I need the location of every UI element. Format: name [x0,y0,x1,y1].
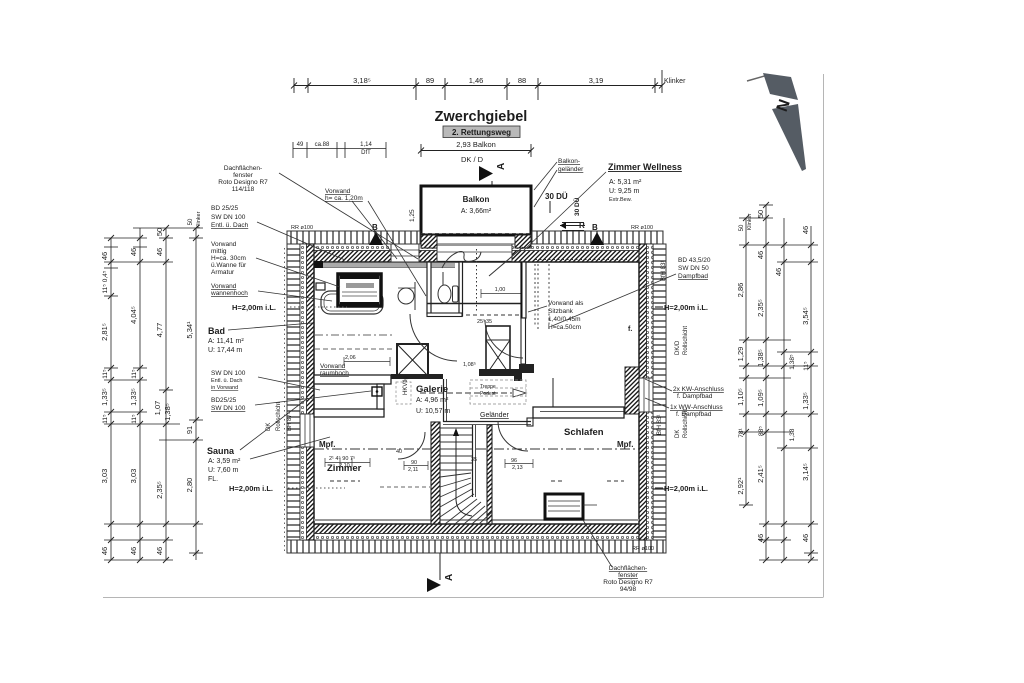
svg-text:U: 17,44 m: U: 17,44 m [208,347,242,354]
svg-text:FL.: FL. [208,476,218,483]
balcony dimension [418,144,534,157]
svg-text:Rollschicht: Rollschicht [683,326,689,355]
svg-text:wannenhoch: wannenhoch [210,290,248,297]
svg-text:BD25/25: BD25/25 [211,397,237,404]
svg-text:46: 46 [129,547,138,555]
washbasin [398,288,414,304]
svg-text:A: A [496,163,507,170]
svg-text:3,54⁵: 3,54⁵ [801,307,810,325]
svg-text:U: 10,57 m: U: 10,57 m [416,408,450,415]
svg-text:Vorwand: Vorwand [211,241,237,248]
bottom roof window label [603,565,653,593]
svg-text:B: B [592,223,598,232]
svg-text:1,29: 1,29 [736,347,745,362]
shower curtain squiggle [442,252,481,269]
stairs [431,422,492,524]
doors (arcs) [410,314,457,361]
walk line with arrow [455,432,457,500]
svg-text:2,80: 2,80 [185,478,194,493]
svg-text:ca.88: ca.88 [315,142,330,148]
svg-text:30 DÜ: 30 DÜ [545,192,568,201]
svg-text:3,19: 3,19 [589,76,604,85]
svg-text:DK / D: DK / D [461,155,484,164]
svg-text:Klinker: Klinker [196,211,202,228]
Bad bottom wall [314,375,391,384]
svg-text:Schlafen: Schlafen [564,427,604,438]
balcony door opening [437,244,512,262]
svg-text:fenster: fenster [233,172,254,179]
svg-text:46: 46 [756,534,765,542]
svg-text:46: 46 [801,534,810,542]
svg-text:BH 87¹: BH 87¹ [287,412,293,431]
svg-text:Roto Designo R7: Roto Designo R7 [603,579,653,586]
svg-text:1,33⁵: 1,33⁵ [129,388,138,406]
svg-text:1,00: 1,00 [495,287,506,293]
wall right of WC [459,262,463,316]
svg-text:Zimmer Wellness: Zimmer Wellness [608,162,682,172]
svg-text:2. Rettungsweg: 2. Rettungsweg [452,128,511,137]
svg-text:2,35⁵: 2,35⁵ [155,481,164,499]
svg-text:3,14⁵: 3,14⁵ [801,463,810,481]
svg-text:fenster: fenster [618,572,639,579]
dotted shower partition [476,249,478,313]
north arrow [747,73,806,171]
svg-text:SW DN 100: SW DN 100 [211,370,246,377]
right annotation texts [670,257,725,418]
svg-text:Mpf.: Mpf. [617,440,633,449]
galerie dash-dot void line with arrow [420,392,512,394]
svg-text:2,11: 2,11 [408,467,418,473]
svg-text:Balkon-: Balkon- [558,158,580,165]
svg-text:11⁵: 11⁵ [102,414,109,424]
svg-text:78¹: 78¹ [738,427,745,437]
svg-text:Mpf.: Mpf. [319,440,335,449]
Treppe dashed podest rect [470,380,526,404]
svg-text:geländer: geländer [558,166,584,173]
svg-text:h= ca. 1,20m: h= ca. 1,20m [325,195,363,202]
svg-text:DfT: DfT [361,150,371,156]
svg-text:Dampfbad: Dampfbad [678,273,708,280]
small valve box on left wall [316,283,325,290]
dim 1,00 inside hall [481,293,523,295]
svg-text:Vorwand: Vorwand [211,283,237,290]
svg-text:RR ø100: RR ø100 [632,546,654,552]
svg-text:50: 50 [739,224,745,231]
sauna stove [372,387,382,396]
klinker course top (two parts, balcony gap) [287,231,666,553]
svg-text:H=2,00m i.L.: H=2,00m i.L. [232,303,276,312]
svg-text:2,81⁵: 2,81⁵ [100,323,109,341]
svg-text:H=ca. 30cm: H=ca. 30cm [211,255,246,262]
svg-text:H=2,00m i.L.: H=2,00m i.L. [664,303,708,312]
tiny dim lines in rooms [325,357,533,470]
leader lines [228,162,676,567]
svg-text:46: 46 [774,268,783,276]
svg-text:f. Dampfbad: f. Dampfbad [677,393,713,400]
svg-text:SW DN 100: SW DN 100 [211,214,246,221]
sitzbank dashed [535,260,630,331]
svg-text:11⁵: 11⁵ [131,369,138,379]
svg-text:2,93 Balkon: 2,93 Balkon [456,140,496,149]
svg-text:U: 9,25 m: U: 9,25 m [609,188,640,195]
svg-text:46: 46 [801,226,810,234]
svg-text:1,38⁵: 1,38⁵ [789,354,796,370]
parapet bars [391,374,443,379]
svg-text:Sitzbank: Sitzbank [548,308,574,315]
svg-text:1,38⁵: 1,38⁵ [756,349,765,367]
ticks rows (horizontal) [104,246,118,248]
svg-text:4,77: 4,77 [155,323,164,338]
connectors/ticks [739,217,773,219]
LEFT DIMENSION CHAINS [104,228,203,560]
svg-text:1x WW-Anschluss: 1x WW-Anschluss [670,404,723,411]
svg-text:Bad: Bad [208,326,225,336]
section marker A top [479,163,507,186]
svg-text:35: 35 [471,457,477,463]
gray front-wall band in Bad [315,263,455,267]
svg-text:2,35⁵: 2,35⁵ [756,299,765,317]
svg-text:Roto Designo R7: Roto Designo R7 [218,179,268,186]
left chain labels (rotated) [100,211,202,555]
balcony side hatched stubs [421,235,437,248]
svg-text:2,41⁵: 2,41⁵ [756,465,765,483]
svg-text:3,03: 3,03 [129,469,138,484]
roof window bottom right [545,494,597,519]
svg-text:RR ø100: RR ø100 [291,225,313,231]
slash ticks left chains [108,225,199,563]
svg-text:50: 50 [756,210,765,218]
svg-text:96: 96 [511,458,517,464]
dashed ceiling lines Bad [315,334,392,336]
svg-text:1,40/0,45m: 1,40/0,45m [548,316,581,323]
svg-text:46: 46 [155,248,164,256]
svg-text:2,86: 2,86 [736,283,745,298]
svg-text:H=2,00m i.L.: H=2,00m i.L. [229,484,273,493]
svg-text:35: 35 [486,319,492,325]
svg-text:1,10⁵: 1,10⁵ [736,388,745,406]
landing lines [427,303,523,305]
svg-text:Klinker: Klinker [747,213,753,230]
svg-text:Dachflächen-: Dachflächen- [224,165,262,172]
svg-text:11⁵: 11⁵ [131,414,138,424]
Vorwand als Sitzbank block [548,300,584,331]
svg-text:1,07: 1,07 [153,401,162,416]
svg-text:46: 46 [100,547,109,555]
right chain labels [736,210,810,542]
svg-text:88⁵: 88⁵ [758,426,765,436]
svg-text:U: 7,60 m: U: 7,60 m [208,467,239,474]
svg-text:1,33⁵: 1,33⁵ [100,388,109,406]
svg-text:2,10: 2,10 [339,463,350,469]
window right wall [639,378,653,412]
svg-text:Entl. ü. Dach: Entl. ü. Dach [211,222,249,229]
svg-text:1,38⁵: 1,38⁵ [163,403,172,421]
svg-text:1,38: 1,38 [789,428,796,441]
inner wall edge [314,262,639,524]
svg-text:3,03: 3,03 [100,469,109,484]
svg-text:f. Dampfbad: f. Dampfbad [676,411,712,418]
shaft 2 with X [486,326,510,375]
svg-text:raumhoch: raumhoch [320,370,349,377]
svg-text:91: 91 [185,426,194,434]
Sauna bottom wall [314,409,384,417]
left annotation texts [210,165,363,412]
dotted line outside left wall [284,248,286,552]
svg-text:4,04⁵: 4,04⁵ [129,306,138,324]
svg-text:2,92¹: 2,92¹ [736,477,745,495]
svg-text:A: 4,96 m²: A: 4,96 m² [416,397,449,404]
svg-text:2,13: 2,13 [512,465,523,471]
svg-text:A: A [444,574,455,581]
svg-text:Geländer: Geländer [480,412,509,419]
svg-text:46: 46 [129,248,138,256]
svg-text:11⁵ 0,4⁵: 11⁵ 0,4⁵ [102,270,109,293]
svg-text:Dachflächen-: Dachflächen- [609,565,647,572]
svg-text:Rollschicht: Rollschicht [276,402,282,431]
gray floor edge bottom [314,519,639,521]
svg-text:DK/D: DK/D [675,340,681,355]
svg-text:5,34¹: 5,34¹ [185,321,194,339]
svg-text:89: 89 [426,76,434,85]
Kamin shaft with X [397,344,428,376]
svg-text:1,46: 1,46 [469,76,484,85]
svg-text:Klinker: Klinker [664,78,686,85]
svg-text:A: 11,41 m²: A: 11,41 m² [208,338,244,345]
gallery void edge left of stairs [443,379,445,422]
svg-text:1,14: 1,14 [360,142,372,148]
svg-text:Extr.Bew.: Extr.Bew. [609,197,632,203]
dashes Schlafen / Zimmer [551,480,563,482]
svg-text:A: 5,31 m²: A: 5,31 m² [609,179,642,186]
svg-text:2x KW-Anschluss: 2x KW-Anschluss [673,386,725,393]
gallery railing [443,421,531,423]
svg-text:in Vorwand: in Vorwand [211,385,238,391]
svg-text:1,09⁵: 1,09⁵ [756,389,765,407]
svg-text:H=2,00m i.L.: H=2,00m i.L. [664,484,708,493]
structural walls hatched with insulation dot band [300,244,653,540]
svg-text:1,33⁵: 1,33⁵ [801,392,810,410]
svg-text:46: 46 [756,251,765,259]
svg-text:Treppe: Treppe [480,384,496,390]
svg-text:Balkon: Balkon [463,195,490,204]
svg-text:A: 3,66m²: A: 3,66m² [461,208,492,215]
Schlafen top wall with jog [533,407,624,418]
svg-text:A: 3,59 m²: A: 3,59 m² [208,458,241,465]
wall left of WC [427,262,431,314]
top connector [133,227,203,229]
svg-text:BD 25/25: BD 25/25 [211,205,238,212]
svg-text:Zwerchgiebel: Zwerchgiebel [435,109,528,125]
svg-text:40: 40 [396,449,402,455]
svg-text:11⁵: 11⁵ [803,361,810,371]
svg-text:DK: DK [675,430,681,438]
balcony door swing diagonal [489,247,523,276]
svg-text:Entl. ü. Dach: Entl. ü. Dach [211,378,243,384]
svg-text:49: 49 [297,142,304,148]
svg-text:Podest: Podest [480,391,496,397]
svg-text:3,18⁵: 3,18⁵ [353,76,371,85]
svg-text:f.: f. [628,326,632,333]
dash-dot section line through plan [314,448,639,450]
svg-text:SW DN 100: SW DN 100 [211,405,246,412]
svg-text:BfH 83¹: BfH 83¹ [657,415,663,435]
small dim chain top-left [293,142,386,158]
svg-text:Vorwand als: Vorwand als [548,300,584,307]
section triangles B on top wall [369,223,604,245]
svg-text:H=ca.50cm: H=ca.50cm [548,324,581,331]
bottom section marker [439,553,441,580]
balcony [421,186,531,235]
svg-text:2,06: 2,06 [345,355,356,361]
svg-text:1,08⁵: 1,08⁵ [463,361,476,368]
dark square top-left [314,261,323,268]
svg-text:90: 90 [411,460,417,466]
svg-text:RR ø100: RR ø100 [631,225,653,231]
window top wall [391,244,419,262]
svg-text:46: 46 [155,547,164,555]
svg-text:SW DN 50: SW DN 50 [678,265,709,272]
svg-text:Armatur: Armatur [211,269,235,276]
sauna right stub [377,384,384,409]
window left wall [300,414,314,447]
svg-text:Vorwand: Vorwand [320,363,346,370]
svg-text:88: 88 [518,76,526,85]
svg-text:46: 46 [100,252,109,260]
niche stub wall right [625,367,639,414]
svg-text:Rollschicht: Rollschicht [683,409,689,438]
small interior dims [329,318,523,473]
svg-text:Sauna: Sauna [207,446,235,456]
svg-text:50: 50 [155,228,164,236]
svg-text:1,25: 1,25 [409,209,416,222]
Wellness left wall [521,262,526,318]
svg-text:Vorwand: Vorwand [325,188,351,195]
toilet [438,272,458,303]
page frame right and bottom [823,74,825,597]
chain lines [110,238,112,560]
svg-text:2¹ 4⁵ 90 7⁵: 2¹ 4⁵ 90 7⁵ [329,455,355,462]
svg-text:Galerie: Galerie [416,384,448,395]
svg-text:11⁵: 11⁵ [102,369,109,379]
RIGHT DIMENSION CHAINS [739,205,818,560]
svg-text:HKVtlg: HKVtlg [403,376,409,395]
svg-text:25⁵: 25⁵ [477,318,485,325]
svg-text:94/98: 94/98 [620,586,637,593]
svg-text:mittig: mittig [211,248,227,255]
dark shower box [338,274,381,306]
bathtub [321,291,383,314]
svg-text:114/118: 114/118 [232,186,255,193]
svg-text:BD 43,5/20: BD 43,5/20 [678,257,711,264]
svg-text:50: 50 [188,218,194,225]
svg-text:ü.Wanne für: ü.Wanne für [211,262,247,269]
